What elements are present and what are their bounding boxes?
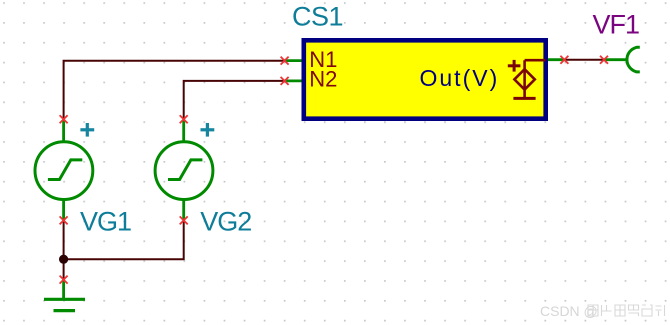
wire VG1 top to N1: [64, 61, 285, 119]
VG2 plus sign: [201, 123, 215, 137]
pin N2 stub: [285, 80, 302, 83]
wire VG2 bottom to junction: [64, 220, 184, 259]
voltage generator VG2: [155, 142, 213, 200]
svg-text:VF1: VF1: [593, 9, 640, 39]
svg-text:VG2: VG2: [200, 207, 251, 237]
wire VG1 bottom to ground node: [63, 220, 65, 280]
wire CS1 output to VF1 probe: [564, 59, 604, 61]
svg-text:Out(V): Out(V): [420, 65, 500, 91]
VG1 plus sign: [80, 123, 94, 137]
watermark: [540, 303, 665, 319]
controlled source block CS1 body: [304, 40, 546, 118]
pin N1 stub: [285, 59, 302, 62]
pin VG1 top: [62, 119, 65, 142]
svg-text:N2: N2: [309, 66, 337, 91]
pin Out stub: [548, 58, 565, 61]
voltage generator VG1: [35, 142, 93, 200]
svg-text:CS1: CS1: [292, 2, 343, 32]
pin VG2 bottom: [182, 200, 185, 221]
pin ground stub: [62, 280, 65, 300]
dependent source symbol inside CS1: [513, 60, 545, 98]
voltage probe VF1 symbol: [627, 47, 640, 72]
wire VG2 top to N2: [184, 81, 285, 119]
pin VG1 bottom: [62, 200, 65, 221]
svg-text:VG1: VG1: [80, 207, 131, 237]
junction dot: [59, 255, 68, 264]
dependent source plus sign: [508, 60, 521, 72]
pin VG2 top: [182, 119, 185, 142]
connection x marks: [60, 56, 608, 284]
ground: [44, 299, 85, 310]
pin VF1 probe stub: [604, 58, 627, 61]
